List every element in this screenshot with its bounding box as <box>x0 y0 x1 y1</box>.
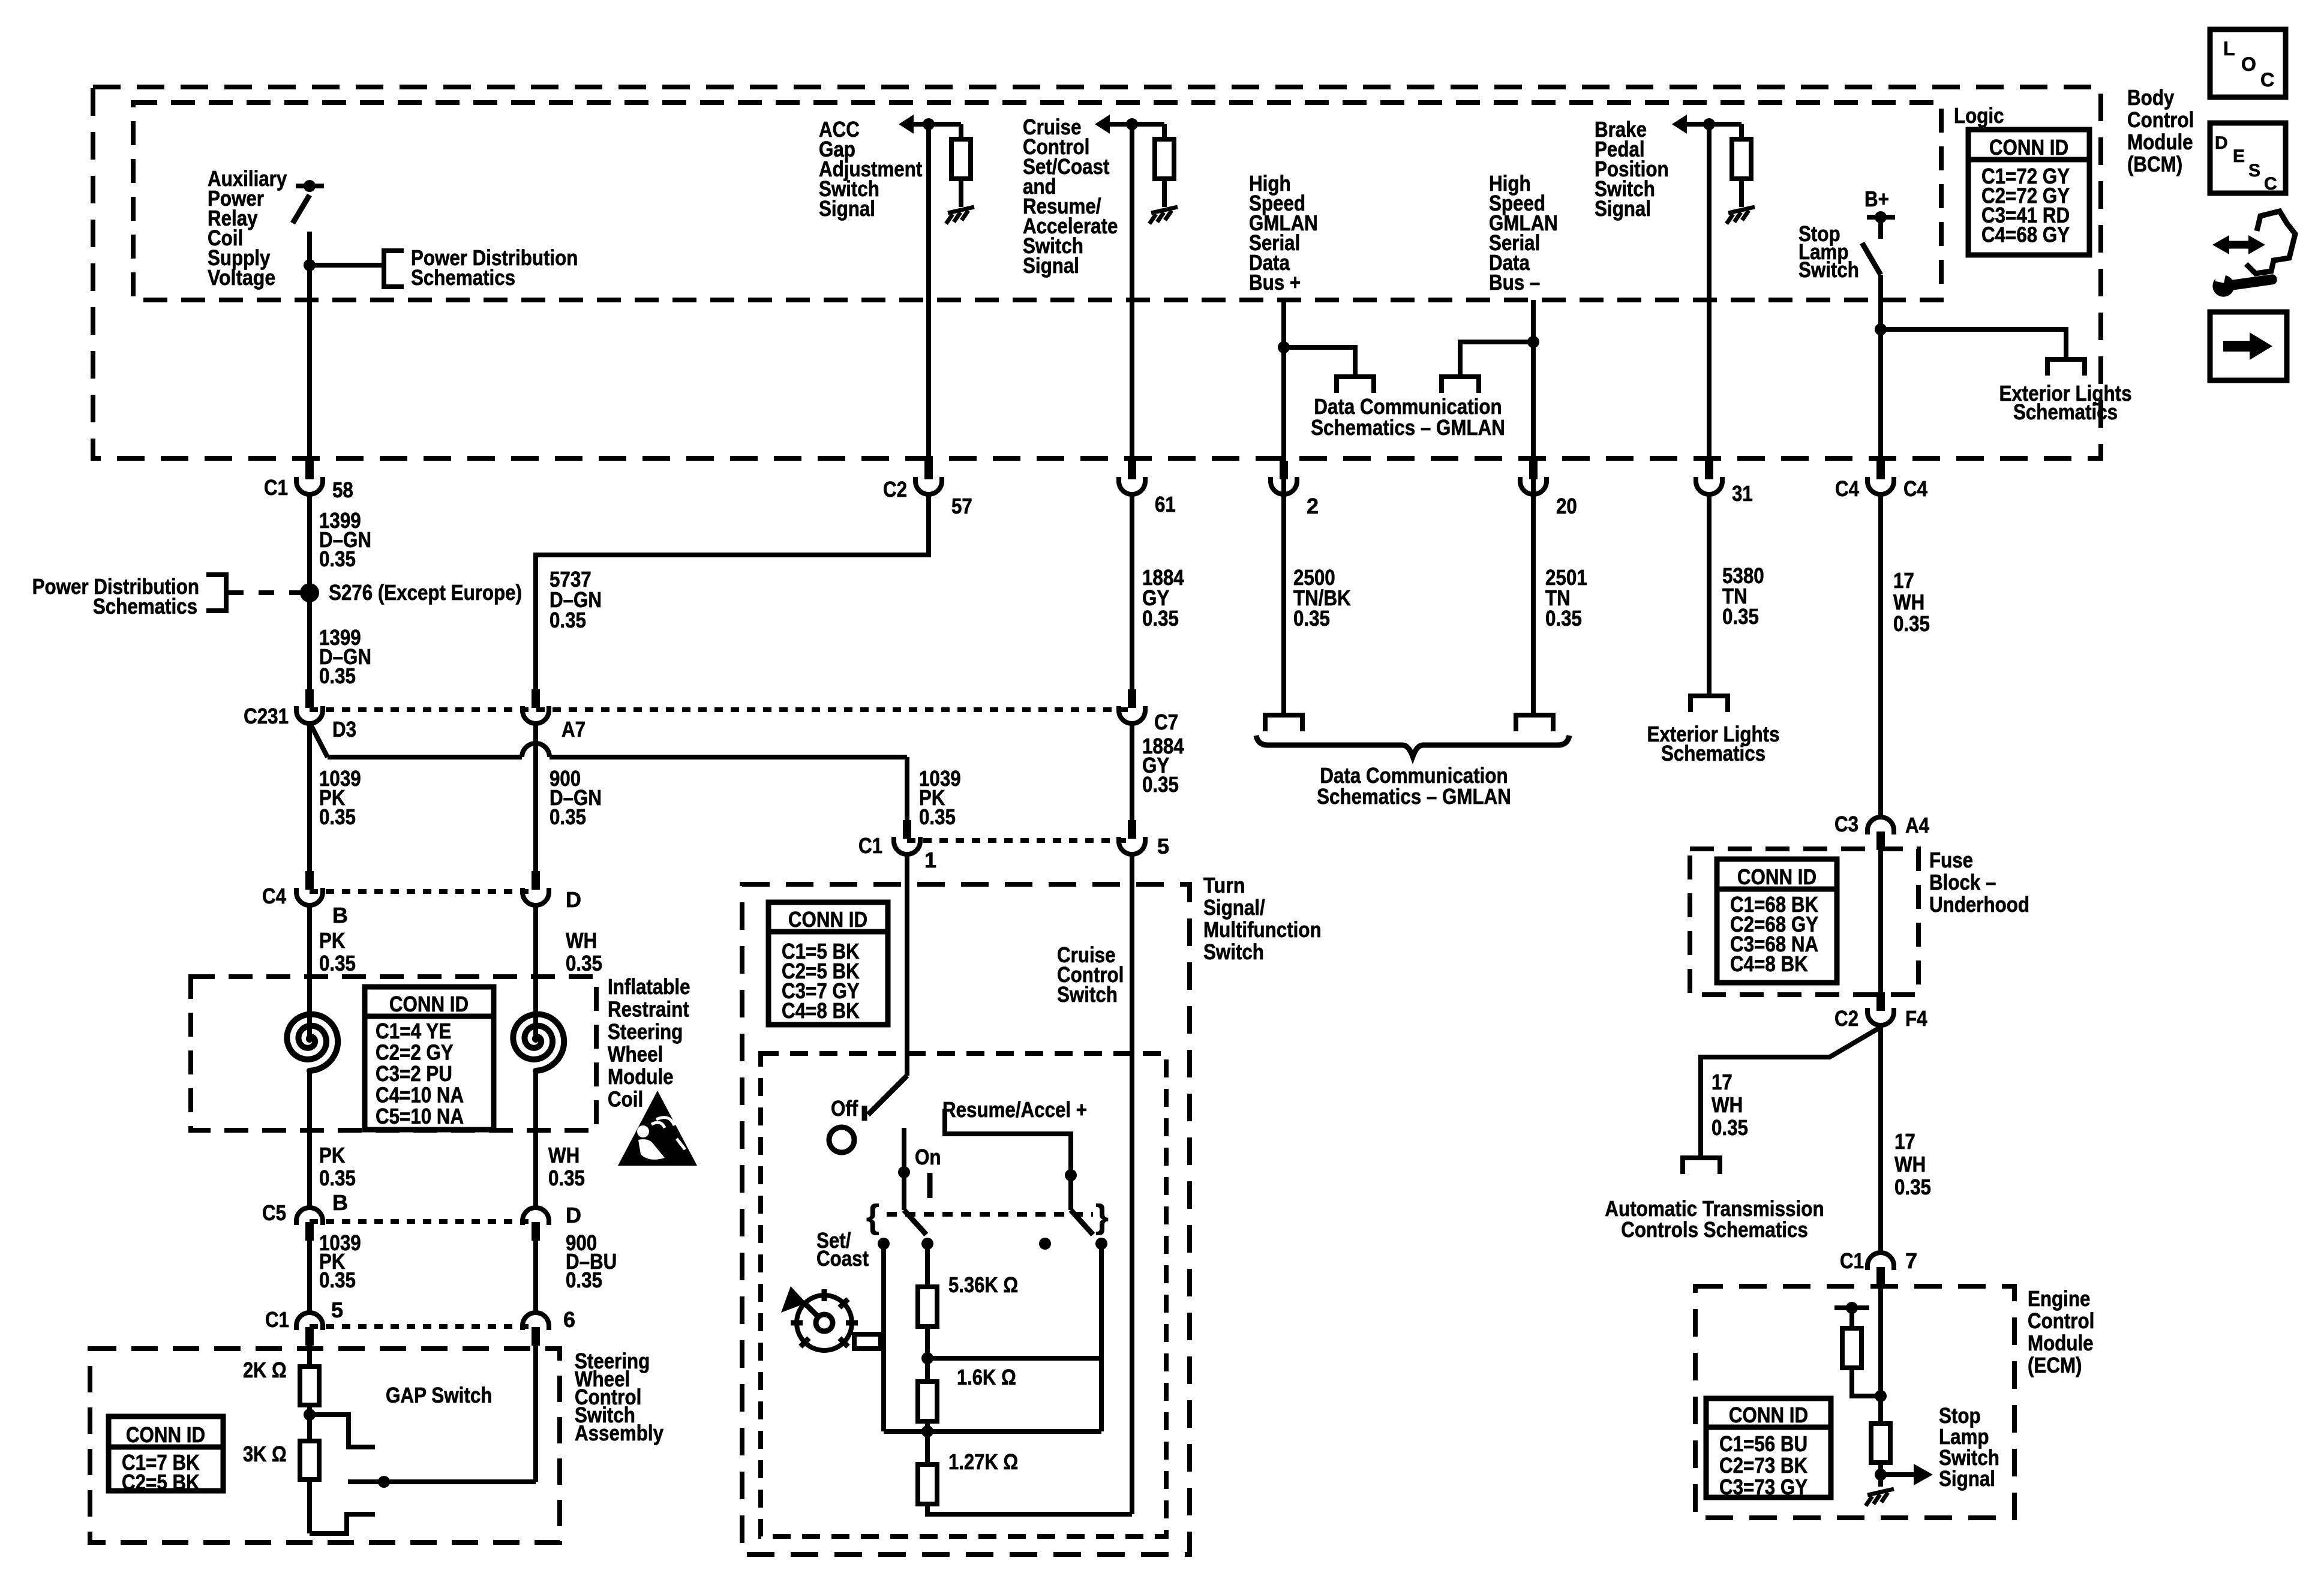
termination exterior lights (bus) <box>1691 696 1728 712</box>
connector row line C4 <box>310 889 536 894</box>
connector BCM row pin 31 <box>1705 461 1713 479</box>
svg-text:O: O <box>2241 53 2256 75</box>
wire 58 to S276 <box>307 494 312 593</box>
ECM pullup top bar <box>1834 1305 1869 1310</box>
svg-text:Module: Module <box>2028 1331 2094 1355</box>
svg-text:Control: Control <box>2028 1308 2094 1333</box>
LOC icon box <box>2210 29 2286 97</box>
termination data comm bus- <box>1442 377 1479 393</box>
cruise set blade <box>904 1210 926 1235</box>
termination data comm bus+ <box>1337 377 1374 393</box>
svg-text:Schematics: Schematics <box>93 594 197 619</box>
svg-text:1.27K Ω: 1.27K Ω <box>948 1449 1018 1474</box>
connector C231 pin D3 <box>305 689 314 708</box>
svg-text:C1: C1 <box>1840 1248 1864 1273</box>
svg-text:E: E <box>2233 146 2245 166</box>
power distribution ref bracket (S276) <box>206 575 226 611</box>
svg-text:Steering: Steering <box>608 1019 683 1044</box>
resistor 1.6K <box>918 1382 937 1421</box>
connector row line C5 <box>310 1219 536 1224</box>
junction dot stop lamp branch <box>1875 323 1887 335</box>
svg-text:Signal: Signal <box>1023 253 1079 278</box>
svg-text:CONN ID: CONN ID <box>1989 135 2068 160</box>
connector BCM row pin 58 <box>305 461 314 479</box>
wire set/coast left contact down <box>881 1244 886 1431</box>
svg-text:Resume/Accel +: Resume/Accel + <box>942 1097 1087 1122</box>
svg-text:0.35: 0.35 <box>566 1268 602 1292</box>
svg-text:7: 7 <box>1905 1248 1917 1273</box>
svg-text:A7: A7 <box>562 717 585 742</box>
connector C3/A4 <box>1867 817 1894 834</box>
steering wheel control switch assembly dashed box <box>90 1349 560 1542</box>
connector BCM row pin 20 <box>1529 461 1538 479</box>
termination bus+ lower <box>1265 715 1302 731</box>
ECM signal dot <box>1875 1469 1887 1481</box>
wire 3K to bottom stub <box>307 1479 312 1533</box>
stop lamp switch stub <box>1878 217 1883 239</box>
svg-text:A4: A4 <box>1905 813 1929 837</box>
svg-text:Assembly: Assembly <box>575 1421 663 1445</box>
svg-text:C1: C1 <box>858 833 882 858</box>
svg-text:0.35: 0.35 <box>550 804 586 829</box>
cruise internal wire <box>1106 122 1164 127</box>
node2 dot <box>921 1425 933 1437</box>
connector C5 pin D <box>523 1208 549 1225</box>
svg-text:Switch: Switch <box>1057 982 1118 1007</box>
wire bus- to data comm ref <box>1460 342 1533 377</box>
wire C5-B to C1-5 <box>307 1241 312 1314</box>
svg-text:Body: Body <box>2127 85 2174 110</box>
gap switch common wire <box>348 1479 536 1484</box>
airbag warning triangle <box>618 1091 697 1166</box>
CONN ID box cruise <box>768 902 888 1025</box>
CONN ID box BCM <box>1968 130 2089 255</box>
svg-text:(BCM): (BCM) <box>2127 152 2182 176</box>
svg-text:Signal: Signal <box>1595 196 1651 221</box>
svg-text:C4: C4 <box>1835 476 1859 501</box>
coil spiral left <box>287 1014 338 1071</box>
svg-text:Voltage: Voltage <box>208 265 275 290</box>
svg-text:0.35: 0.35 <box>1545 606 1582 631</box>
brake resistor feed <box>1739 124 1744 139</box>
turn signal / multifunction switch dashed box <box>742 884 1190 1554</box>
wire aux relay to C1 pin 58 <box>307 265 312 462</box>
wire brake to pin 31 <box>1707 124 1712 462</box>
svg-text:C4: C4 <box>1903 476 1927 501</box>
connector C1 pin 6 <box>523 1313 549 1330</box>
svg-text:WH: WH <box>1893 590 1924 614</box>
connector C5 pin B <box>296 1208 323 1225</box>
svg-text:0.35: 0.35 <box>548 1166 585 1190</box>
svg-text:B: B <box>332 1190 348 1215</box>
svg-text:0.35: 0.35 <box>1893 611 1930 636</box>
svg-text:Switch: Switch <box>1798 257 1859 282</box>
svg-text:C7: C7 <box>1154 710 1178 734</box>
wire node2 to R3 <box>925 1431 930 1464</box>
set/coast right contact dot <box>921 1238 933 1250</box>
CONN ID box gap switch <box>109 1416 223 1491</box>
termination bus- lower <box>1516 715 1553 731</box>
ground ACC resistor <box>948 207 974 213</box>
svg-text:C3: C3 <box>1834 812 1858 836</box>
wire resume contact riser <box>1099 1244 1104 1431</box>
svg-text:Control: Control <box>2127 107 2194 132</box>
svg-text:CONN ID: CONN ID <box>389 992 469 1016</box>
svg-text:C5: C5 <box>262 1200 286 1225</box>
svg-text:Fuse: Fuse <box>1929 848 1973 872</box>
brake internal wire <box>1683 122 1742 127</box>
splice S276 <box>300 583 319 602</box>
svg-text:Underhood: Underhood <box>1929 892 2029 917</box>
inflatable restraint steering wheel module coil dashed box <box>191 977 596 1130</box>
svg-text:C231: C231 <box>244 704 289 728</box>
wire C4-B to coil <box>307 905 312 1041</box>
ACC signal arrow <box>899 115 914 134</box>
svg-text:Wheel: Wheel <box>608 1042 663 1067</box>
svg-text:Signal: Signal <box>1939 1466 1995 1491</box>
wire right contact to R1 <box>925 1244 930 1287</box>
svg-text:B+: B+ <box>1864 187 1889 211</box>
termination exterior lights (top) <box>2047 359 2085 376</box>
svg-text:C4=8 BK: C4=8 BK <box>1730 951 1808 976</box>
svg-text:Engine: Engine <box>2028 1286 2090 1311</box>
svg-text:0.35: 0.35 <box>319 664 356 688</box>
connector BCM row pin C4 <box>1876 461 1885 479</box>
cruise junction dot <box>1126 118 1138 130</box>
wire 5380 TN drop <box>1707 494 1712 696</box>
resume dot <box>1065 1169 1077 1181</box>
wire cruise to pin 61 <box>1130 124 1134 462</box>
wire 2K to junction <box>307 1405 312 1415</box>
svg-text:Bus –: Bus – <box>1489 270 1540 295</box>
DESC icon box <box>2210 123 2286 193</box>
wire GMLAN bus+ drop <box>1281 300 1286 715</box>
ACC resistor feed <box>959 124 963 139</box>
svg-text:0.35: 0.35 <box>319 1166 356 1190</box>
svg-text:Multifunction: Multifunction <box>1203 917 1322 942</box>
svg-text:0.35: 0.35 <box>1712 1115 1748 1140</box>
svg-text:WH: WH <box>548 1143 580 1167</box>
svg-text:WH: WH <box>566 928 597 953</box>
aux power relay contact dot <box>304 180 316 192</box>
svg-text:CONN ID: CONN ID <box>126 1422 205 1447</box>
junction dot gap switch <box>304 1409 316 1421</box>
gap switch wiper dot <box>378 1476 390 1488</box>
connector C1 pin 5 <box>296 1313 323 1330</box>
connector BCM row pin 57 <box>924 461 933 479</box>
connector row line C1 (gap sw) <box>310 1324 536 1329</box>
ground brake resistor <box>1728 207 1755 213</box>
svg-text:Off: Off <box>831 1096 858 1121</box>
BCM outer dashed box <box>93 87 2101 458</box>
svg-text:C: C <box>2264 174 2277 194</box>
svg-text:5.36K Ω: 5.36K Ω <box>948 1272 1018 1297</box>
wire D3 branch down to C1 pin 1 <box>905 757 909 822</box>
wire node2 horizontal <box>884 1429 1101 1434</box>
svg-text:CONN ID: CONN ID <box>1729 1403 1808 1427</box>
wire D3 branch horizontal (left of hop) <box>328 755 522 760</box>
connector C4 pin D <box>532 871 540 890</box>
dashed leader to S276 <box>228 590 303 595</box>
wire ACC to C2 pin 57 <box>926 124 931 462</box>
svg-text:Signal: Signal <box>819 196 875 221</box>
svg-text:0.35: 0.35 <box>1142 772 1179 797</box>
junction dot bus+ <box>1278 341 1290 353</box>
termination auto trans <box>1683 1158 1720 1174</box>
wire R2 to node2 <box>925 1421 930 1433</box>
wire R1 to node1 <box>925 1326 930 1359</box>
wire coil left lower <box>307 1070 312 1209</box>
svg-text:C4=68 GY: C4=68 GY <box>1981 223 2070 247</box>
svg-text:C3=73 GY: C3=73 GY <box>1719 1475 1807 1499</box>
connector pin 5 <box>1128 820 1136 839</box>
svg-text:C2: C2 <box>883 477 907 502</box>
wire ECM input <box>1878 1286 1883 1424</box>
connector row line C231 <box>310 707 1132 712</box>
speedo set arrow <box>781 1286 806 1313</box>
svg-text:Signal/: Signal/ <box>1203 895 1265 920</box>
svg-text:(ECM): (ECM) <box>2028 1353 2082 1377</box>
svg-text:Controls Schematics: Controls Schematics <box>1621 1217 1808 1242</box>
svg-text:}: } <box>1095 1197 1109 1235</box>
svg-text:GAP Switch: GAP Switch <box>386 1383 493 1407</box>
wire junction to 3K <box>307 1415 312 1441</box>
B+ supply bar <box>1867 215 1895 220</box>
brake signal arrow <box>1672 115 1687 134</box>
wire node1 to resume contact riser <box>927 1356 1101 1361</box>
svg-text:Block –: Block – <box>1929 870 1996 894</box>
wire ECM lower resistor to ground <box>1878 1463 1883 1487</box>
svg-text:17: 17 <box>1712 1070 1733 1094</box>
svg-text:17: 17 <box>1894 1129 1915 1154</box>
svg-text:Coast: Coast <box>816 1246 869 1271</box>
stop lamp switch blade <box>1862 243 1881 275</box>
svg-text:Restraint: Restraint <box>608 997 689 1022</box>
svg-text:WH: WH <box>1894 1152 1926 1176</box>
resistor ACC pull-down <box>951 139 971 179</box>
svg-text:0.35: 0.35 <box>319 547 356 571</box>
wire C4-D to coil <box>533 905 538 1041</box>
wire aux relay to junction <box>307 232 312 265</box>
resistor 3K <box>300 1441 319 1479</box>
node1 dot <box>921 1352 933 1364</box>
svg-text:58: 58 <box>332 478 353 502</box>
wire 1884 pin61 to C7 <box>1130 494 1134 690</box>
svg-text:0.35: 0.35 <box>319 1268 356 1292</box>
wire resume feed <box>945 1109 1071 1210</box>
svg-text:0.35: 0.35 <box>319 951 356 975</box>
cruise resistor feed <box>1162 124 1167 139</box>
svg-text:CONN ID: CONN ID <box>788 907 867 932</box>
svg-text:S: S <box>2248 161 2260 181</box>
svg-text:0.35: 0.35 <box>550 608 586 632</box>
speedo small rectangle <box>854 1334 881 1349</box>
svg-text:Turn: Turn <box>1203 873 1245 897</box>
svg-text:PK: PK <box>319 1143 346 1167</box>
ACC internal wire <box>909 122 961 127</box>
power distribution reference bracket <box>384 251 404 287</box>
resistor 2K <box>300 1367 319 1405</box>
ACC junction dot <box>923 118 935 130</box>
resistor 5.36K <box>918 1287 937 1326</box>
ECM stop lamp signal arrow <box>1881 1472 1915 1477</box>
svg-text:S276 (Except Europe): S276 (Except Europe) <box>329 580 522 605</box>
svg-text:0.35: 0.35 <box>566 951 602 975</box>
mechanical link dashed <box>887 1212 1093 1217</box>
resistor ECM pullup <box>1842 1328 1861 1368</box>
svg-text:{: { <box>866 1197 879 1235</box>
wire C1-5 to 2K resistor <box>307 1346 312 1367</box>
svg-text:PK: PK <box>319 928 346 953</box>
svg-text:2: 2 <box>1307 494 1319 518</box>
svg-text:L: L <box>2223 38 2235 59</box>
fuse block underhood dashed box <box>1690 849 1918 995</box>
svg-text:0.35: 0.35 <box>1293 606 1330 631</box>
cruise off contact tick <box>862 1106 867 1121</box>
svg-text:Bus +: Bus + <box>1249 270 1301 295</box>
svg-text:Coil: Coil <box>608 1087 643 1112</box>
aux power relay switch blade <box>293 195 310 223</box>
wire ECM pullup feed <box>1849 1308 1854 1328</box>
svg-text:Schematics – GMLAN: Schematics – GMLAN <box>1311 415 1505 440</box>
wire junction to power distribution bracket <box>310 263 384 268</box>
resume right contact dot <box>1095 1238 1107 1250</box>
wire S276 to C231 <box>307 593 312 690</box>
svg-text:1: 1 <box>924 848 936 872</box>
wire 5737 C2-57 to A7 <box>536 494 929 690</box>
svg-text:17: 17 <box>1893 568 1914 593</box>
svg-text:C4: C4 <box>262 884 286 908</box>
svg-text:31: 31 <box>1732 481 1753 506</box>
svg-text:Module: Module <box>2127 130 2193 154</box>
wire R3 to bottom rail <box>927 1504 1132 1514</box>
aux power relay contact bar <box>296 184 324 188</box>
resume left contact dot <box>1039 1238 1051 1250</box>
svg-text:Schematics: Schematics <box>2013 400 2118 424</box>
svg-text:0.35: 0.35 <box>319 804 356 829</box>
coil spiral right <box>513 1014 564 1071</box>
connector C231 pin A7 <box>532 689 540 708</box>
svg-text:61: 61 <box>1155 492 1176 517</box>
CONN ID box fuse block <box>1717 859 1837 983</box>
svg-text:F4: F4 <box>1905 1006 1927 1031</box>
svg-text:5: 5 <box>1157 834 1169 858</box>
brake junction dot <box>1703 118 1715 130</box>
wire coil right lower <box>533 1070 538 1209</box>
svg-text:Module: Module <box>608 1064 674 1089</box>
connector row line C1/5 (turn signal sw) <box>907 838 1132 843</box>
svg-text:1.6K Ω: 1.6K Ω <box>957 1365 1016 1389</box>
svg-text:C5=10 NA: C5=10 NA <box>376 1104 464 1128</box>
forward arrow icon box <box>2210 312 2287 380</box>
connector C1/7 (ECM) <box>1867 1253 1894 1270</box>
wire C4-C4 down to C3-A4 <box>1878 494 1883 818</box>
svg-text:Schematics: Schematics <box>1661 741 1765 766</box>
svg-text:2K Ω: 2K Ω <box>243 1358 287 1382</box>
connector C1 pin 1 <box>903 820 911 839</box>
svg-text:3K Ω: 3K Ω <box>243 1442 287 1466</box>
svg-text:57: 57 <box>951 494 972 518</box>
wire pin1 into switch <box>905 854 909 1076</box>
gap switch lower contact stub <box>310 1514 375 1533</box>
wire brake resistor to ground <box>1739 179 1744 207</box>
gap switch upper contact stub <box>310 1415 375 1447</box>
CONN ID box coil <box>365 987 494 1130</box>
connector BCM row pin 61 <box>1128 461 1136 479</box>
cruise control switch inner dashed box <box>761 1053 1166 1536</box>
off position circle <box>829 1127 854 1152</box>
cruise on dot <box>898 1166 910 1178</box>
resistor cruise pull-down <box>1155 139 1174 179</box>
wire C231-D3 down to C4-B <box>307 724 312 879</box>
svg-text:D: D <box>566 887 581 912</box>
resistor 1.27K <box>918 1464 937 1504</box>
ECM node dot <box>1875 1390 1887 1402</box>
wire D3 branch horizontal (right of hop) <box>550 755 907 760</box>
svg-text:CONN ID: CONN ID <box>1737 864 1816 889</box>
svg-text:0.35: 0.35 <box>1894 1175 1931 1199</box>
svg-text:Switch: Switch <box>1203 939 1264 964</box>
svg-text:On: On <box>915 1145 941 1169</box>
wire cruise resistor to ground <box>1162 179 1167 207</box>
svg-text:Logic: Logic <box>1954 103 2004 128</box>
connector BCM row pin 2 <box>1280 461 1288 479</box>
junction dot aux/power-distribution <box>304 259 316 271</box>
set/coast left contact dot <box>878 1238 890 1250</box>
wire C3-A4 through fuse block <box>1878 850 1883 993</box>
wire node1 to R2 <box>925 1359 930 1382</box>
svg-text:C4=8 BK: C4=8 BK <box>782 998 860 1023</box>
ground cruise resistor <box>1151 207 1178 213</box>
cruise on contact tick <box>927 1173 933 1198</box>
wire stop lamp to exterior lights <box>1881 329 2066 359</box>
cruise signal arrow <box>1095 115 1110 134</box>
cruise on wire <box>902 1128 906 1210</box>
svg-text:0.35: 0.35 <box>1722 604 1759 629</box>
cruise on/off blade <box>868 1076 907 1115</box>
svg-text:0.35: 0.35 <box>919 804 956 829</box>
resistor brake pull-down <box>1732 139 1751 179</box>
svg-text:C: C <box>2260 69 2274 91</box>
svg-text:Schematics: Schematics <box>411 265 515 290</box>
curly brace data communication <box>1256 736 1569 757</box>
wire return riser to pin 5 <box>1130 854 1134 1514</box>
wire bus+ to data comm ref <box>1284 347 1355 377</box>
wire 1884 C7 down to pin 5 <box>1130 724 1134 822</box>
wire C2-F4 down to C1-7 <box>1878 1025 1883 1253</box>
wire stop lamp switch down <box>1878 275 1883 462</box>
svg-text:C2: C2 <box>1834 1006 1858 1031</box>
wire hop over A7 wire <box>522 743 550 757</box>
speedometer gauge icon <box>797 1295 852 1350</box>
connector C4 pin B <box>305 871 314 890</box>
svg-text:D: D <box>566 1203 581 1227</box>
svg-text:6: 6 <box>563 1307 575 1332</box>
svg-text:C2=73 BK: C2=73 BK <box>1719 1453 1807 1478</box>
ground ECM <box>1867 1489 1894 1495</box>
wire pin6 to gap common <box>533 1346 538 1482</box>
resume blade <box>1071 1210 1093 1235</box>
svg-text:D3: D3 <box>332 717 356 742</box>
svg-text:D: D <box>2215 133 2228 153</box>
svg-text:C2=5 BK: C2=5 BK <box>122 1470 200 1494</box>
svg-text:Schematics – GMLAN: Schematics – GMLAN <box>1317 784 1511 809</box>
connector C2/F4 <box>1876 992 1885 1011</box>
svg-text:C1=56 BU: C1=56 BU <box>1719 1431 1807 1456</box>
wire branch to auto trans <box>1701 1027 1881 1158</box>
svg-text:5: 5 <box>331 1298 343 1322</box>
svg-text:C1: C1 <box>264 475 288 500</box>
